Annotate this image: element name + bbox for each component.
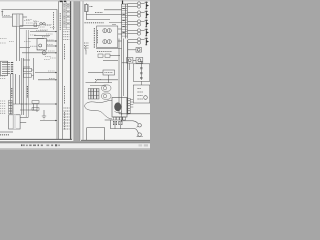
ground stub x44	[42, 110, 46, 119]
vertical bus bundle below strip	[119, 39, 128, 121]
table left border	[57, 1, 59, 139]
top canvas strip	[0, 0, 150, 1]
branch wire y25.5	[20, 25, 40, 27]
top mark above strip	[122, 1, 124, 5]
wire below relay box	[96, 48, 122, 50]
wire end arrowheads into bus	[55, 31, 57, 121]
bar body	[0, 143, 150, 148]
left edge label rows lower	[0, 76, 9, 135]
fuse box FL block	[12, 14, 23, 26]
branch wire y28.5	[20, 28, 38, 30]
page frame thin line	[71, 1, 73, 139]
main wire y19.6	[86, 19, 110, 21]
label top-left	[4, 14, 10, 16]
wire y52.5	[22, 52, 57, 54]
vertical bus x23.3	[22, 58, 24, 115]
blob harness outline	[85, 98, 134, 125]
connector cell column left	[9, 100, 12, 114]
left table rows	[63, 3, 71, 29]
wire y120.8	[123, 120, 134, 122]
coil row 2	[128, 11, 149, 19]
fuse row text	[85, 22, 105, 24]
right side marks	[139, 144, 143, 146]
long wire y82.6	[86, 82, 113, 84]
wire y120	[40, 120, 57, 122]
label near fuse	[24, 20, 30, 22]
vertical band x11 with label	[10, 74, 12, 114]
table mid divider	[65, 1, 67, 29]
right page	[80, 1, 150, 141]
gap shading	[74, 1, 81, 141]
wire y60	[23, 59, 30, 61]
small component y50 right	[127, 48, 150, 104]
page frame thick line	[69, 1, 71, 139]
left page bottom border	[0, 138, 72, 140]
relay box	[97, 26, 118, 48]
arrow marks	[11, 62, 13, 64]
wires relay to strip	[118, 28, 122, 30]
bottom edge	[0, 148, 150, 150]
page left frame	[82, 1, 84, 140]
table lower text block	[63, 32, 69, 40]
bottom-left component box	[9, 115, 21, 129]
relay 1 circles	[103, 29, 107, 33]
header text above table	[60, 0, 67, 2]
stubs under X squares	[114, 125, 116, 129]
branch wire y47.5	[20, 47, 30, 49]
nav glyphs	[21, 144, 60, 146]
bottom text line	[0, 131, 13, 133]
connector feet under box	[113, 117, 125, 120]
right page bottom border	[81, 139, 150, 141]
hatch block (solenoid bank)	[88, 89, 99, 100]
battery label	[90, 6, 94, 8]
wire y79.5	[38, 79, 57, 81]
vertical band x26.5 with label	[25, 30, 27, 117]
relay circles	[40, 23, 42, 25]
wire y67	[23, 66, 30, 68]
main vertical band	[16, 26, 18, 61]
left edge bracket	[1, 11, 3, 17]
right page vertical text labels	[86, 28, 98, 51]
box 2 right column	[140, 81, 142, 85]
battery	[85, 5, 89, 12]
strip cell marks	[122, 9, 124, 33]
coil row 1	[128, 2, 149, 10]
canvas background	[0, 0, 150, 150]
left page bottom-right text rows	[64, 108, 70, 129]
vertical bus x19.5	[19, 75, 21, 104]
box 1 right column	[133, 64, 150, 82]
frame top line	[2, 9, 58, 11]
vertical link x33.5	[33, 58, 35, 80]
pre-strip arrow marks	[109, 22, 122, 24]
wire y128.6	[111, 128, 136, 130]
diodes inside box1	[140, 64, 142, 80]
branch wire y31.5	[30, 31, 57, 33]
vertical bus x15.7	[15, 74, 17, 104]
dense connector rows left middle	[2, 63, 13, 74]
left page text-like marks	[0, 15, 56, 78]
connector strip right page	[122, 1, 128, 39]
small comp boxes	[98, 54, 103, 57]
wire from battery down	[85, 12, 87, 20]
wire y110	[20, 109, 37, 111]
rounded components right of hatch	[102, 85, 112, 99]
text below	[97, 51, 112, 53]
wire to fuse box	[2, 16, 12, 18]
coil row 4	[128, 29, 149, 37]
wire y72.5	[35, 72, 57, 74]
left text block small	[84, 42, 89, 44]
branch wire y35.5	[34, 35, 50, 37]
canvas strip below pages	[0, 141, 150, 142]
table col border	[62, 1, 64, 139]
cluster mid top	[34, 21, 39, 23]
strip rows	[122, 6, 128, 36]
label box mid	[103, 70, 115, 75]
small label boxes right of bus	[32, 101, 39, 104]
connector box left middle	[1, 61, 8, 75]
wire from fuse box right	[23, 16, 27, 18]
pin stack right of box	[127, 98, 130, 113]
ecm body box	[112, 98, 127, 118]
drawing area right border	[56, 10, 58, 140]
A/C labels	[47, 39, 54, 41]
knock sensor 2	[138, 133, 141, 136]
left edge text rows	[0, 38, 7, 40]
main wire y9.8	[104, 9, 122, 11]
coil row 5	[128, 38, 149, 46]
bus junction wire y113.8	[119, 113, 150, 115]
long wire y104	[13, 103, 57, 105]
left table cell text marks	[63, 4, 69, 26]
motor component on wire	[42, 51, 46, 55]
A/C component box	[37, 39, 47, 51]
label above wire	[95, 12, 103, 14]
wire y79.8	[97, 79, 118, 81]
wires from bottom box	[20, 117, 28, 119]
vertical bus x21.8	[21, 58, 23, 115]
drop from label box	[108, 75, 110, 83]
short stubs	[33, 104, 35, 110]
coil+igniter rows	[128, 2, 149, 46]
main wire y14.6	[86, 14, 121, 16]
knock sensor 1	[138, 124, 141, 127]
left page: frame & table verticals	[0, 1, 72, 139]
label box pair left	[24, 68, 32, 71]
bottom label	[0, 134, 9, 136]
vertical rotated text streaks left page	[12, 12, 65, 130]
wires from pins	[130, 99, 133, 101]
bottom-right tiny label	[137, 136, 143, 138]
L wires bottom left	[87, 127, 105, 129]
left page	[0, 1, 74, 141]
label above	[95, 79, 101, 81]
wires from A/C box	[47, 40, 57, 42]
relay 2 circles	[103, 40, 107, 44]
twin boxes y57-63	[127, 58, 133, 64]
coil row 3	[128, 20, 149, 28]
main cross wires lower right page	[81, 113, 150, 140]
connector squares with X	[113, 121, 116, 124]
bus stub right	[122, 62, 128, 64]
dark mass inside	[114, 102, 121, 111]
branch wire y38.5	[28, 38, 44, 40]
separator line	[0, 141, 150, 144]
